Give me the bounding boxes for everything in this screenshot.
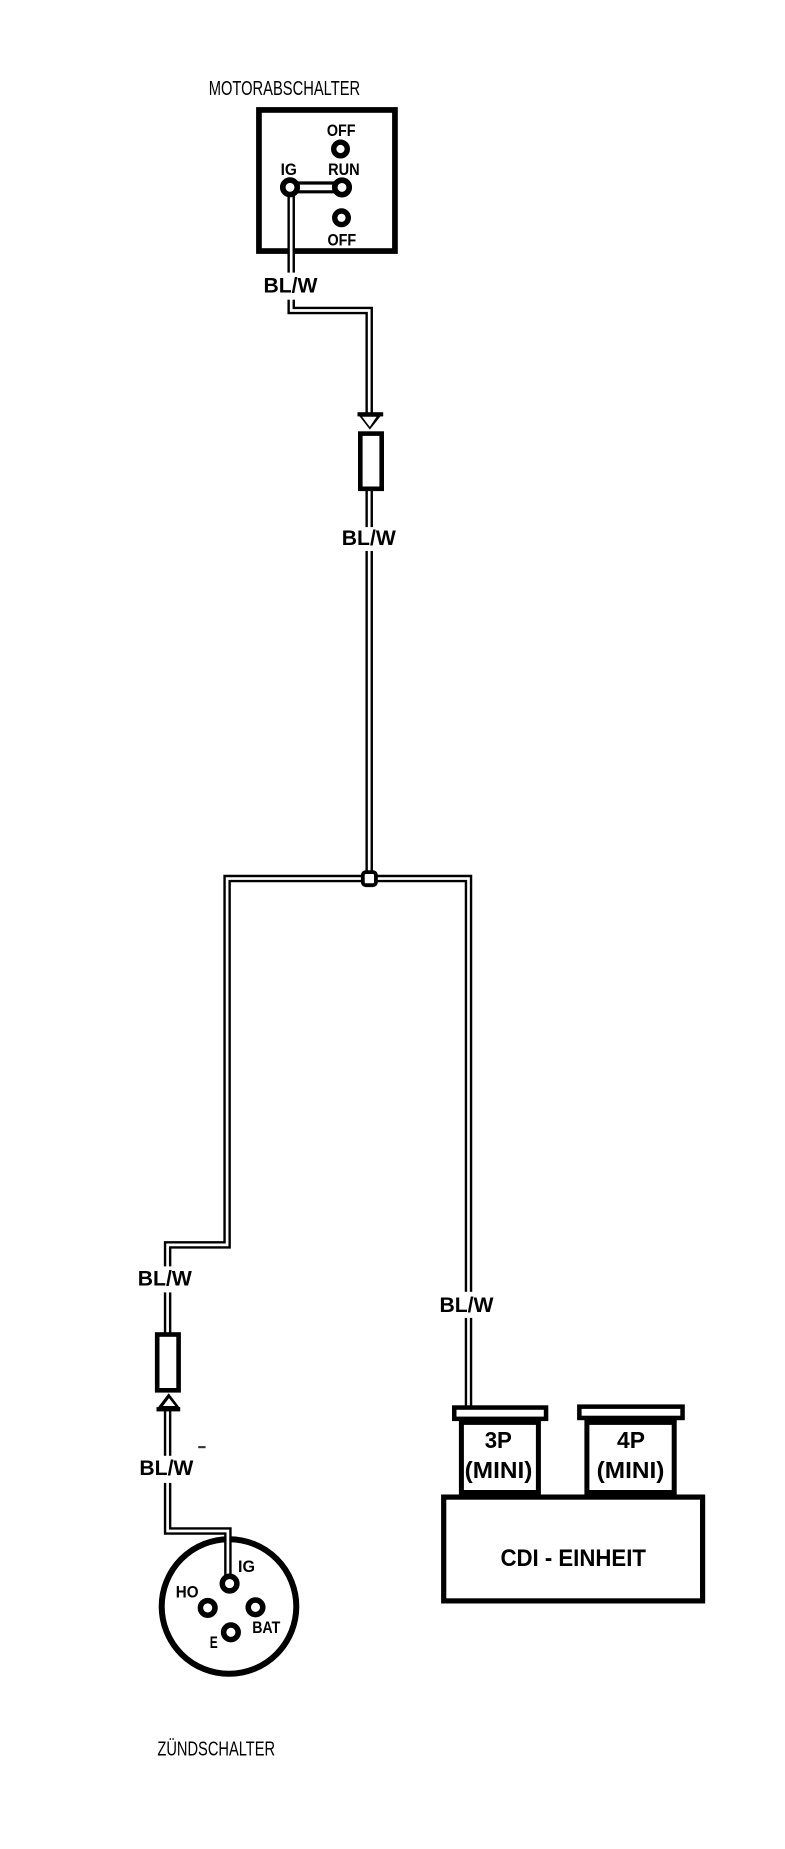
svg-text:4P: 4P — [617, 1427, 645, 1453]
svg-text:ZÜNDSCHALTER: ZÜNDSCHALTER — [157, 1738, 275, 1761]
svg-text:BL/W: BL/W — [264, 275, 318, 298]
svg-text:IG: IG — [238, 1558, 255, 1576]
svg-text:IG: IG — [281, 160, 297, 179]
svg-text:BL/W: BL/W — [440, 1294, 494, 1317]
svg-text:OFF: OFF — [327, 121, 356, 140]
svg-text:HO: HO — [176, 1583, 199, 1601]
svg-text:OFF: OFF — [327, 231, 356, 250]
svg-text:BAT: BAT — [252, 1619, 280, 1637]
svg-text:BL/W: BL/W — [139, 1457, 193, 1480]
svg-text:E: E — [210, 1634, 218, 1652]
svg-text:3P: 3P — [485, 1427, 512, 1453]
svg-text:(MINI): (MINI) — [465, 1457, 533, 1483]
svg-text:RUN: RUN — [328, 160, 360, 179]
svg-text:BL/W: BL/W — [138, 1268, 192, 1291]
svg-text:BL/W: BL/W — [342, 527, 396, 550]
svg-text:MOTORABSCHALTER: MOTORABSCHALTER — [209, 78, 361, 100]
svg-text:CDI - EINHEIT: CDI - EINHEIT — [500, 1546, 646, 1572]
svg-text:(MINI): (MINI) — [597, 1457, 665, 1483]
